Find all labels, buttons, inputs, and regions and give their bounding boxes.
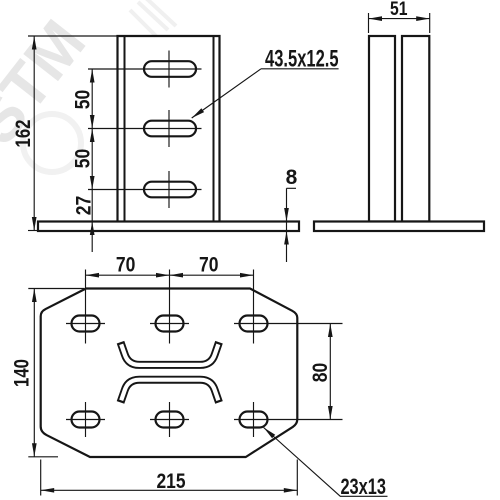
svg-text:162: 162	[12, 120, 35, 148]
slot S1	[144, 61, 196, 77]
label 23x13 with leader	[264, 428, 388, 497]
channel section lower profile	[121, 380, 220, 403]
dim 50 lower	[90, 129, 95, 143]
svg-text:70: 70	[116, 253, 136, 276]
dim 140	[28, 289, 84, 457]
column inner flange lines	[125, 37, 214, 222]
svg-text:50: 50	[71, 149, 94, 169]
hole H2 (top-middle)	[156, 316, 184, 332]
svg-text:27: 27	[72, 196, 95, 216]
label 43.5x12.5 with leader	[192, 69, 339, 118]
dim 215	[41, 460, 298, 496]
hole H4 (bottom-left)	[72, 412, 100, 428]
hole H6 (bottom-right)	[240, 412, 268, 428]
base plate side view	[314, 222, 484, 232]
svg-text:51: 51	[390, 0, 408, 20]
hole H5 (bottom-middle)	[156, 412, 184, 428]
dim 80	[329, 324, 331, 420]
channel section upper profile	[121, 342, 220, 365]
svg-text:50: 50	[71, 90, 94, 110]
svg-text:140: 140	[10, 359, 33, 387]
svg-text:23x13: 23x13	[340, 474, 386, 499]
hole H1 (top-left)	[72, 316, 100, 332]
slot S3	[144, 182, 196, 198]
dim 70 / 70	[86, 274, 254, 276]
slot center marks	[88, 51, 202, 209]
slot S2	[144, 121, 196, 137]
dim 162	[28, 36, 117, 231]
svg-text:8: 8	[286, 166, 298, 189]
side column flange right	[402, 36, 429, 222]
svg-text:70: 70	[199, 253, 219, 276]
dim 50 upper	[91, 69, 93, 252]
side column flange left	[369, 36, 395, 222]
svg-text:80: 80	[309, 363, 332, 383]
column front outline	[118, 36, 220, 222]
dim 8	[287, 188, 297, 262]
hole H3 (top-right)	[240, 316, 268, 332]
base plate front view	[38, 222, 299, 232]
dim 27	[90, 222, 95, 236]
dim 51	[369, 13, 430, 33]
plate outline	[41, 289, 298, 458]
svg-text:215: 215	[157, 470, 186, 493]
hole center marks	[66, 270, 343, 438]
svg-text:43.5x12.5: 43.5x12.5	[265, 46, 339, 73]
watermark	[23, 0, 176, 172]
